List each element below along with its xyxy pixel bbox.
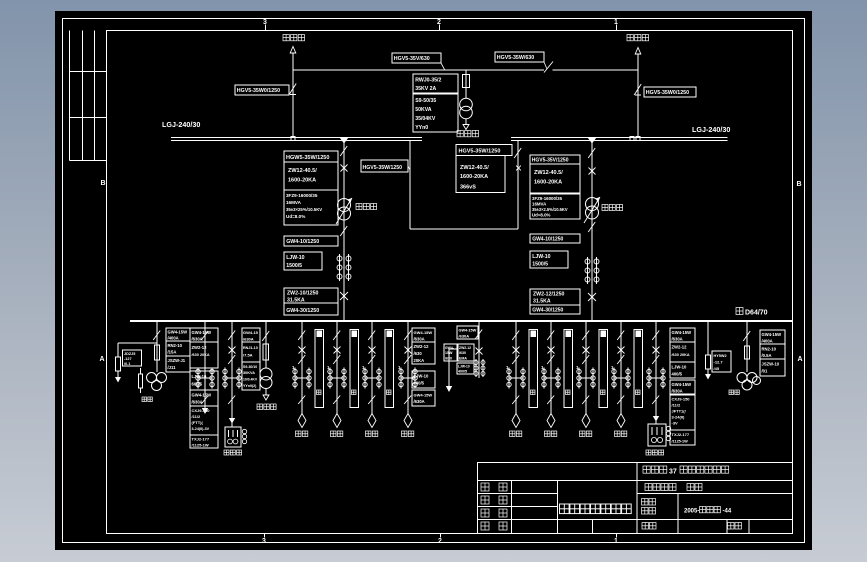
svg-text:HGW5-35W/1250: HGW5-35W/1250 <box>286 155 329 161</box>
svg-text:TXJ2-177: TXJ2-177 <box>672 432 690 437</box>
svg-text:/630A: /630A <box>459 334 470 339</box>
incoming line L1 name label <box>283 35 289 41</box>
disconnect switch F2a <box>333 331 340 341</box>
wire: feeder bay F8 <box>620 321 622 414</box>
label column A cell 2 RN2-10/15A <box>166 341 190 356</box>
wire: station transformer branch <box>465 70 467 98</box>
disconnect switch F9a <box>652 331 659 341</box>
svg-text:CXJ9-150: CXJ9-150 <box>672 397 691 402</box>
wire: bus section bay <box>478 321 480 378</box>
label box ZW2-10/1250 (T1) <box>284 288 338 303</box>
label column F9 cell 1 <box>670 328 695 342</box>
feeder name label F2 <box>331 431 337 437</box>
junction triangle T1-bus <box>340 138 349 144</box>
svg-text:TXJ2-177: TXJ2-177 <box>192 437 210 442</box>
label: transformer T1 name <box>356 204 362 210</box>
label box HGV5-35W0/1250 (L1) <box>235 85 289 95</box>
svg-text:HGV5-35W/1250: HGV5-35W/1250 <box>459 149 501 155</box>
cubicle outline F1 <box>315 330 324 408</box>
svg-text:/630: /630 <box>459 351 466 355</box>
svg-text:HGV5-35V/630: HGV5-35V/630 <box>394 56 430 62</box>
label column F9 cell 5 <box>670 395 695 430</box>
circuit breaker bus-section <box>476 348 483 355</box>
disconnect switch F3b <box>368 355 375 364</box>
label PT2 name <box>729 390 734 395</box>
inner frame <box>107 31 793 534</box>
label column PT2 cell 2 <box>760 344 785 359</box>
arrow aux bay <box>202 408 208 414</box>
cubicle outline F6 <box>564 330 573 408</box>
label column A cell 1 GW4-15W/400A <box>166 328 190 341</box>
disconnect switch F4a <box>404 331 411 341</box>
disconnect switch F1c <box>298 396 305 405</box>
label box HGV5-35W/1250 (bus-tie) <box>456 145 512 156</box>
svg-text:ZW12-40.5/: ZW12-40.5/ <box>288 168 317 174</box>
wire: main feeder T1 <box>343 141 345 322</box>
label box HGV5-35V/1250 (T2) <box>530 155 580 164</box>
svg-text:LJW-10: LJW-10 <box>672 365 687 370</box>
svg-text:GW4-15W: GW4-15W <box>672 330 692 335</box>
svg-text:2005-: 2005- <box>684 509 699 515</box>
feeder name label F5 <box>510 431 516 437</box>
title row: project name <box>643 466 650 473</box>
svg-text:37: 37 <box>669 469 677 476</box>
cubicle outline F7 <box>599 330 608 408</box>
svg-text:/0.5A: /0.5A <box>762 353 772 358</box>
cable head F6 <box>547 414 555 428</box>
disconnect switch F7c <box>582 396 589 405</box>
circuit breaker F2 <box>334 347 341 354</box>
svg-text:1500/5: 1500/5 <box>286 263 302 269</box>
label box HGV5-35W/1250 (loop left leg) <box>361 160 408 172</box>
breaker star on bus-tie <box>516 166 521 171</box>
disconnect switch F8a <box>617 331 624 341</box>
grounding transformer 2 box symbol <box>648 424 666 446</box>
wire: feeder bay F3 <box>371 321 373 414</box>
svg-text:ZW2-10/1250: ZW2-10/1250 <box>287 291 319 297</box>
lower bus 10kV <box>130 320 793 322</box>
disconnect switch F7a <box>582 331 589 341</box>
fuse PT1 <box>155 345 160 360</box>
title row: subproject <box>645 484 652 491</box>
svg-text:/630A: /630A <box>414 337 425 342</box>
svg-text:YYn0: YYn0 <box>415 125 428 131</box>
label box ZW2-12/1250 (T2) <box>530 289 580 305</box>
svg-text:2: 2 <box>438 538 442 545</box>
svg-text:35KV 2A: 35KV 2A <box>415 86 436 92</box>
wire: PT1 bay <box>156 321 158 372</box>
svg-text:3: 3 <box>263 19 267 26</box>
current transformers F6 <box>543 368 545 389</box>
svg-text:LJW-10: LJW-10 <box>532 254 550 260</box>
disconnect switch T1 lower <box>340 226 347 236</box>
disconnect switch PT2 <box>743 331 750 341</box>
disconnect switch bus-section <box>475 330 482 340</box>
label box LJW-10 1500/5 (T1) <box>284 252 322 270</box>
label box bus-section GW4-15W <box>444 344 457 361</box>
svg-text:/630A: /630A <box>672 389 683 394</box>
disconnect switch F5b <box>512 355 519 364</box>
cubicle outline F2 <box>350 330 359 408</box>
label box GW4-30/1250 (T2) <box>530 305 580 314</box>
cable head F4 <box>404 414 412 428</box>
disconnect switch T1 upper <box>340 146 347 156</box>
svg-text:YYn0(2): YYn0(2) <box>243 384 257 388</box>
cubicle outline F3 <box>385 330 394 408</box>
label column B cell 5 CXJ9-150 <box>190 406 218 435</box>
arrow into F9 box <box>653 416 659 422</box>
surge arrester right <box>706 355 711 369</box>
svg-text:EMA: EMA <box>459 357 467 361</box>
wire: bus-tie loop bottom <box>410 228 518 230</box>
svg-text:/01: /01 <box>762 369 768 374</box>
svg-text:/400A: /400A <box>762 339 773 344</box>
label box HGV5-35V/630 <box>392 53 441 63</box>
cable head F8 <box>617 414 625 428</box>
label column A cell 3 JSZW-J1 <box>166 356 190 372</box>
label F9 name <box>646 450 651 455</box>
svg-text:1600-20KA: 1600-20KA <box>288 178 316 184</box>
circuit breaker F7 <box>583 347 590 354</box>
wire: PT2 bay <box>746 321 748 372</box>
title: drawing name (one-line diagram) <box>560 504 570 514</box>
wire: feeder bay F5 <box>515 321 517 414</box>
disconnect switch PT1 <box>153 331 160 341</box>
circuit breaker F6 <box>548 347 555 354</box>
disconnect switch F8b <box>617 355 624 364</box>
disconnect switch F3c <box>368 396 375 405</box>
label column PT2 cell 3 <box>760 359 785 376</box>
wire: feeder bay F2 <box>336 321 338 414</box>
wire: main feeder T2 <box>591 141 593 322</box>
current transformers F4 <box>400 368 402 389</box>
disconnect switch F3a <box>368 331 375 341</box>
label column F9 cell 3 <box>670 362 695 378</box>
current transformers F1 <box>294 368 296 389</box>
svg-text:JFTT1(/: JFTT1(/ <box>672 409 687 414</box>
svg-text:16MVA: 16MVA <box>286 200 302 205</box>
junction triangle T2-bus <box>588 138 597 144</box>
svg-text:/630 20KA: /630 20KA <box>192 353 210 357</box>
revision table top-left <box>69 31 71 161</box>
svg-text:/1125-1W: /1125-1W <box>672 440 689 444</box>
svg-text:35/04KV: 35/04KV <box>415 116 436 122</box>
disconnect switch F5a <box>512 331 519 341</box>
label column F9 cell 2 <box>670 342 695 362</box>
label box bus-section GW4-15W/630A <box>457 326 478 339</box>
svg-text:LJW-10: LJW-10 <box>414 374 429 379</box>
svg-text:JDZJ5: JDZJ5 <box>124 352 135 356</box>
disconnect switch F6c <box>547 396 554 405</box>
current transformers aux bay <box>197 368 199 389</box>
svg-text:ZW12-40.5/: ZW12-40.5/ <box>460 165 489 171</box>
disconnect switch aux bay lower <box>201 396 208 405</box>
fuse RWJ0-35 on station branch <box>463 75 470 88</box>
wire: incoming line L2 <box>637 54 639 137</box>
label box GW4-10/1250 (T1) <box>284 236 338 246</box>
svg-text:ZW2-12/1250: ZW2-12/1250 <box>533 292 565 298</box>
svg-text:20KA: 20KA <box>414 358 425 363</box>
arrow head incoming L2 <box>635 48 641 55</box>
fuse beside PT1 <box>140 368 142 374</box>
svg-text:GW4-30/1250: GW4-30/1250 <box>532 308 563 314</box>
wire: incoming line L1 <box>292 53 294 137</box>
label column B cell 2 ZW2-12/630 <box>190 342 218 368</box>
circuit breaker F5 <box>513 347 520 354</box>
label box HGV5-35W0/1250 (L2) <box>644 87 696 97</box>
disconnect switch F6b <box>547 355 554 364</box>
svg-text:JSZW-J1: JSZW-J1 <box>168 358 186 363</box>
label box ZW12-40.5 (bus-tie) <box>456 156 505 193</box>
wire: feeder bay F1 <box>301 321 303 414</box>
disconnect switch F9b <box>652 355 659 364</box>
svg-text:-127: -127 <box>124 357 132 361</box>
svg-text:HGV5-35W0/1250: HGV5-35W0/1250 <box>646 90 689 96</box>
svg-text:GW4-15W: GW4-15W <box>414 393 433 398</box>
label box JDZJ5 (left arrester) <box>123 350 142 366</box>
current transformers F7 <box>578 368 580 389</box>
circuit breaker F3 <box>369 347 376 354</box>
circuit breaker T1 upper <box>341 165 348 172</box>
station transformer T3 (two windings) <box>460 98 473 111</box>
label column F4 cell 4 <box>412 390 435 406</box>
label column C cell 3 S9-30/10 <box>242 362 260 390</box>
ground arrow right arrester <box>707 369 709 374</box>
label column F4 cell 1 <box>412 328 435 342</box>
svg-text:35±3×25%/10.5KV: 35±3×25%/10.5KV <box>286 207 322 212</box>
label column B cell 3 LJW-10 600/5 <box>190 371 218 390</box>
coil beside F9 box <box>666 426 670 430</box>
disconnect switch F1a <box>298 331 305 341</box>
fuse ST2 <box>263 344 269 360</box>
svg-text:-12.7: -12.7 <box>714 360 724 365</box>
label box 3FZ9-16000/35 (T1) <box>284 190 338 225</box>
svg-text:31.5KA: 31.5KA <box>533 299 551 305</box>
transformer T1 (two windings, OLTC) <box>338 199 351 212</box>
label column B cell 6 TXJ2-177 <box>190 435 218 448</box>
svg-text:2: 2 <box>437 19 441 26</box>
svg-text:/630A: /630A <box>192 337 203 342</box>
svg-text:3: 3 <box>262 538 266 545</box>
svg-text:S9-30/10: S9-30/10 <box>243 365 257 369</box>
cable head F1 <box>298 414 306 428</box>
disconnect switch G1b <box>228 355 235 364</box>
title block outer <box>478 463 793 534</box>
current transformers G1 <box>224 368 226 389</box>
svg-text:RN2-10: RN2-10 <box>762 347 777 352</box>
current transformers F5 <box>508 368 510 389</box>
svg-text:30KVA: 30KVA <box>243 371 255 375</box>
feeder name label F8 <box>615 431 621 437</box>
cubicle outline F5 <box>529 330 538 408</box>
svg-text:HGV5-35V/1250: HGV5-35V/1250 <box>532 158 569 164</box>
junction square L1-bus <box>291 137 295 141</box>
disconnect switch F7b <box>582 355 589 364</box>
cable head F5 <box>512 414 520 428</box>
wire: grounding transformer bay <box>231 321 233 427</box>
cable head F7 <box>582 414 590 428</box>
disconnect switch T2 lower <box>588 222 595 232</box>
disconnect switch on L2 <box>634 84 641 95</box>
svg-text:GW4-10/1250: GW4-10/1250 <box>286 239 319 245</box>
current transformers F3 <box>364 368 366 389</box>
switch on tie link <box>544 62 553 73</box>
feeder name label F6 <box>545 431 551 437</box>
label column B cell 4 GW4-15W/630A <box>190 390 218 406</box>
svg-text:3-24(II)-3V: 3-24(II)-3V <box>192 427 210 431</box>
svg-text:ZW2-12: ZW2-12 <box>414 344 430 349</box>
title cell: remark label <box>728 523 735 530</box>
wire: arrester branch left <box>118 342 157 344</box>
label column C cell 1 <box>242 328 260 342</box>
ground arrow left arrester <box>117 371 119 377</box>
svg-text:GW4-15W: GW4-15W <box>168 330 188 335</box>
label box ZW12-40.5 (T1) <box>284 162 338 190</box>
voltage transformer PT2 (three windings) <box>737 373 747 383</box>
svg-text:GW4-15W: GW4-15W <box>192 393 212 398</box>
feeder name label F1 <box>296 431 302 437</box>
svg-text:LGJ-240/30: LGJ-240/30 <box>692 125 730 134</box>
outer border <box>63 19 805 543</box>
svg-text:400/5: 400/5 <box>414 381 425 386</box>
label box S9-50/35 50KVA <box>413 94 458 132</box>
label station transformer 2 name <box>257 404 263 410</box>
wire: tie link between incomers <box>293 69 544 71</box>
label box 3FZ9-16000/35 (T2) <box>530 194 580 219</box>
title cell: date label <box>642 523 649 530</box>
incoming line L2 name label <box>627 35 633 41</box>
grounding transformer box symbol <box>225 427 241 447</box>
lower bus label D64/70 <box>736 308 743 315</box>
svg-text:400/5: 400/5 <box>458 370 467 374</box>
svg-text:HGV5-35W/1250: HGV5-35W/1250 <box>363 165 403 171</box>
disconnect switch F4c <box>404 396 411 405</box>
disconnect switch F2c <box>333 396 340 405</box>
voltage transformer PT1 (three windings) <box>147 373 157 383</box>
svg-text:/45: /45 <box>714 366 720 371</box>
svg-text:/0.1: /0.1 <box>124 362 130 366</box>
label box bus-section ZW2-12 <box>458 344 474 361</box>
svg-text:(FTT)(: (FTT)( <box>192 420 204 425</box>
svg-text:JSZW-10: JSZW-10 <box>762 362 780 367</box>
svg-text:LGJ-240/30: LGJ-240/30 <box>162 120 200 129</box>
label box LJW-10 1500/5 (T2) <box>530 251 568 268</box>
svg-text:HY5W2: HY5W2 <box>714 354 727 358</box>
svg-text:366vS: 366vS <box>460 185 476 191</box>
wire: feeder bay F9 <box>655 321 657 424</box>
svg-text:1600-20KA: 1600-20KA <box>460 174 488 180</box>
svg-text:/J11: /J11 <box>168 365 177 370</box>
wire: bus-tie loop right leg <box>517 141 519 229</box>
disconnect switch F2b <box>333 355 340 364</box>
circuit breaker F9 <box>653 347 660 354</box>
svg-text:16MVA: 16MVA <box>532 202 547 207</box>
extra winding PT2 <box>753 377 761 385</box>
load arrow under T3 <box>465 119 467 125</box>
title cell: drawing number label <box>642 499 649 506</box>
current transformers F9 <box>648 368 650 389</box>
svg-text:A: A <box>99 356 104 363</box>
cable head F3 <box>368 414 376 428</box>
disconnect switch on L1 <box>289 84 296 95</box>
svg-text:B: B <box>796 181 801 188</box>
svg-text:/630A: /630A <box>243 337 254 342</box>
label: transformer T2 name <box>602 205 608 211</box>
svg-text:Ud=8.0%: Ud=8.0% <box>286 214 305 219</box>
svg-text:Ud=8.0%: Ud=8.0% <box>532 213 551 218</box>
circuit breaker T2 upper <box>589 168 596 175</box>
feeder name label F3 <box>366 431 372 437</box>
disconnect switch aux bay <box>201 331 208 340</box>
svg-text:1: 1 <box>614 538 618 545</box>
svg-text:3-24(II): 3-24(II) <box>672 415 686 420</box>
load arrow ST2 <box>265 389 267 395</box>
svg-text:HGV5-35W0/1250: HGV5-35W0/1250 <box>237 88 280 94</box>
current transformers T2 <box>587 257 589 284</box>
circuit breaker F1 <box>299 347 306 354</box>
cubicle outline F8 <box>634 330 643 408</box>
label column F9 cell 4 <box>670 380 695 394</box>
disconnect switch F6a <box>547 331 554 341</box>
disconnect switch F8c <box>617 396 624 405</box>
label box GW4-30/1250 (T1) <box>284 303 338 315</box>
circuit breaker F4 <box>405 347 412 354</box>
circuit breaker T2 lower <box>588 293 596 301</box>
wire: feeder bay F6 <box>550 321 552 414</box>
label column F4 cell 2 <box>412 342 435 364</box>
svg-text:10/0.4KV: 10/0.4KV <box>243 378 258 382</box>
svg-text:1: 1 <box>614 19 618 26</box>
label box RWJ0-35/2 35KV 2A <box>413 74 458 93</box>
wire: right arrester branch <box>707 321 709 355</box>
wire: feeder bay F7 <box>585 321 587 414</box>
svg-text:ZW2-12: ZW2-12 <box>459 346 471 350</box>
svg-text:/630A: /630A <box>672 337 683 342</box>
label column PT2 cell 1 <box>760 330 785 344</box>
svg-text:/400A: /400A <box>168 336 179 341</box>
label box HGV5-35W/630 <box>495 52 544 62</box>
label box bus-section LJW-10 <box>457 363 474 374</box>
svg-text:1600-20KA: 1600-20KA <box>534 180 562 186</box>
label column F9 cell 6 <box>670 430 695 445</box>
wire: bus-tie loop left leg <box>409 141 411 230</box>
svg-text:-3V: -3V <box>672 421 679 426</box>
upper bus section A (35kV) <box>171 137 422 139</box>
disconnect switch ST2 <box>262 331 269 341</box>
arrow head incoming L1 <box>290 47 296 54</box>
label column F4 cell 3 <box>412 371 435 388</box>
disconnect switch F9c <box>652 396 659 405</box>
svg-text:/630 20KA: /630 20KA <box>672 353 690 357</box>
title block grid lines <box>478 480 793 482</box>
svg-text:/1125-1W: /1125-1W <box>192 443 209 448</box>
feeder name label F7 <box>580 431 586 437</box>
svg-text:ZW12-40.5/: ZW12-40.5/ <box>534 170 563 176</box>
disconnect switch F1b <box>298 355 305 364</box>
label box ZW12-40.5 (T2) <box>530 164 580 193</box>
surge arrester left <box>116 357 121 371</box>
svg-text:D64/70: D64/70 <box>745 310 768 317</box>
svg-text:HGV5-35W/630: HGV5-35W/630 <box>497 55 534 61</box>
label box HGW5-35W/1250 (T1) <box>284 151 338 162</box>
fuse PT2 <box>745 346 750 359</box>
cable head F2 <box>333 414 341 428</box>
svg-text:400/5: 400/5 <box>672 372 683 377</box>
arrow bus-section tap <box>446 386 452 392</box>
station transformer 2 (two windings) <box>260 368 272 380</box>
svg-text:GW4-15: GW4-15 <box>243 330 259 335</box>
upper bus section B (35kV) <box>511 137 728 139</box>
